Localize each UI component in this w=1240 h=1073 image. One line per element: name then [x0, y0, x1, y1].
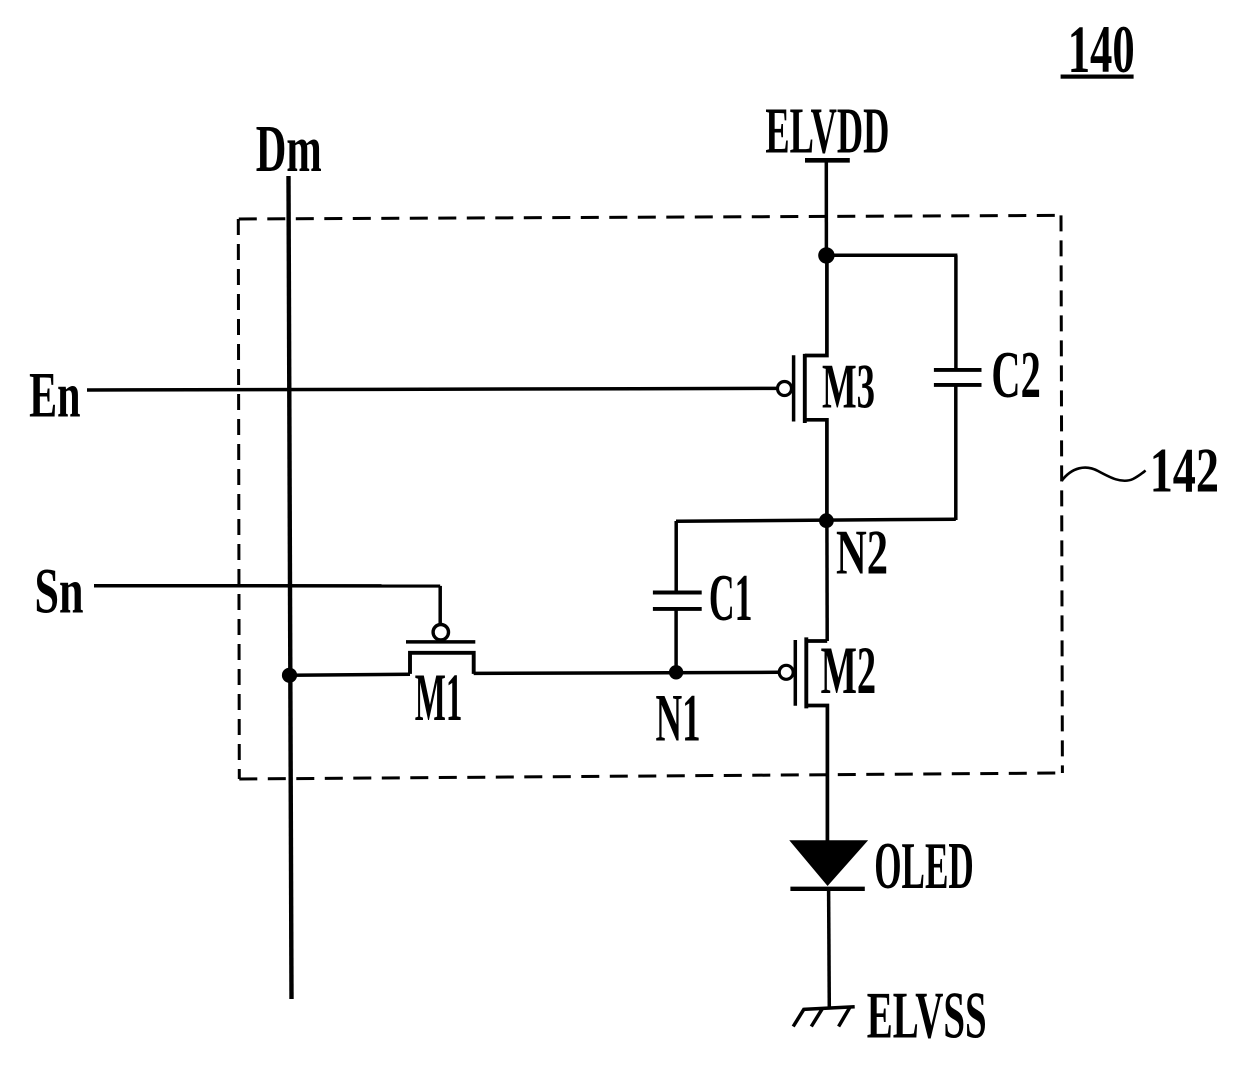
transistor M1 (PMOS) gate bubble	[433, 625, 448, 640]
transistor M2 channel bar	[804, 637, 808, 708]
capacitor C2 top plate	[934, 368, 982, 372]
wire ELVDD to junction	[825, 160, 829, 255]
transistor M1 gate bar	[406, 640, 475, 644]
svg-text:N1: N1	[656, 680, 701, 756]
dashed pixel-circuit box 142: left edge	[238, 219, 239, 779]
wire Dm junction to M1 source	[290, 674, 411, 675]
svg-text:142: 142	[1150, 434, 1219, 505]
svg-text:C2: C2	[991, 338, 1040, 412]
wire C1 top vertical	[674, 521, 678, 592]
svg-text:N2: N2	[836, 517, 888, 588]
svg-text:ELVDD: ELVDD	[765, 94, 889, 167]
svg-text:M2: M2	[821, 632, 877, 708]
wire Sn to M1 gate vertical	[438, 586, 442, 624]
capacitor C2 bottom plate	[934, 383, 982, 387]
svg-text:M1: M1	[415, 659, 463, 735]
ground ELVSS hatch 1	[793, 1009, 804, 1027]
svg-text:OLED: OLED	[874, 830, 974, 903]
transistor M3 drain lead (top)	[805, 255, 827, 355]
wire C2 bottom to node N2	[676, 519, 956, 521]
dashed pixel-circuit box 142: bottom edge	[239, 773, 1062, 779]
leader squiggle to 142	[1062, 468, 1146, 481]
node N1 junction dot	[669, 665, 683, 679]
transistor M2 source lead (bottom)	[806, 706, 827, 842]
transistor M3 source lead (bottom)	[805, 420, 827, 521]
svg-text:ELVSS: ELVSS	[867, 979, 987, 1053]
wire C2 top vertical	[954, 255, 958, 369]
svg-text:En: En	[29, 360, 80, 432]
ground ELVSS hatch 3	[839, 1008, 850, 1027]
wire Sn horizontal	[94, 584, 440, 588]
wire En to M3 gate	[87, 388, 776, 390]
capacitor C1 bottom plate	[653, 607, 702, 611]
svg-text:M3: M3	[822, 351, 875, 422]
svg-text:Sn: Sn	[35, 555, 84, 627]
power ELVDD terminal bar	[805, 158, 850, 163]
junction dot on Dm line	[282, 668, 297, 683]
transistor M2 drain lead (top)	[806, 639, 827, 643]
transistor M2 gate bar	[794, 640, 798, 706]
dashed pixel-circuit box 142: right edge	[1061, 215, 1062, 773]
wire C2 bottom vertical	[954, 385, 958, 520]
transistor M1 channel (bracket)	[410, 653, 474, 674]
transistor M3 channel bar	[803, 354, 807, 423]
transistor M3 (PMOS) gate bubble	[778, 382, 792, 396]
ground ELVSS symbol bar	[803, 1007, 854, 1010]
wire M1 drain to node N1 and M2 gate	[474, 672, 779, 673]
wire C1 bottom to node N1	[674, 609, 678, 672]
wire ELVDD junction to C2 top (horizontal)	[826, 254, 957, 258]
transistor M2 (PMOS) gate bubble	[779, 665, 793, 679]
wire OLED cathode to ELVSS	[827, 889, 831, 1008]
ground ELVSS hatch 2	[811, 1009, 822, 1027]
junction dot at ELVDD branch	[818, 247, 834, 263]
dashed pixel-circuit box 142: top edge	[239, 215, 1061, 219]
capacitor C1 top plate	[653, 591, 702, 595]
transistor M3 gate bar	[792, 355, 796, 421]
node N2 junction dot	[819, 513, 834, 528]
OLED diode anode triangle	[791, 841, 866, 884]
figure number 140	[1061, 11, 1135, 87]
OLED diode cathode bar	[790, 887, 864, 891]
svg-text:C1: C1	[709, 562, 753, 635]
wire N2 to M2 drain	[825, 521, 829, 641]
svg-text:Dm: Dm	[256, 112, 322, 186]
wire Dm data line vertical	[289, 176, 292, 999]
